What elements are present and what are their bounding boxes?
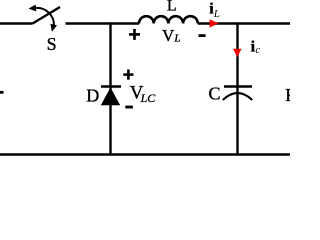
svg-text:c: c — [255, 44, 260, 56]
svg-text:LC: LC — [140, 91, 157, 105]
svg-text:C: C — [209, 83, 221, 103]
svg-text:S: S — [47, 34, 57, 54]
svg-text:R: R — [285, 85, 290, 105]
svg-text:L: L — [173, 33, 180, 45]
svg-text:D: D — [86, 86, 99, 106]
svg-text:L: L — [213, 8, 220, 20]
svg-text:V: V — [162, 26, 175, 45]
svg-text:L: L — [167, 0, 177, 15]
